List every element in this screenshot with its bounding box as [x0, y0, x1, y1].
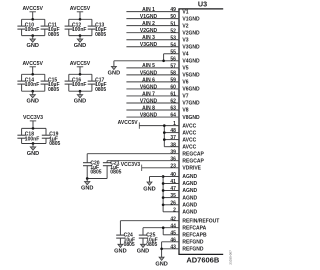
svg-text:REGCAP: REGCAP [182, 158, 204, 164]
svg-text:23: 23 [170, 163, 176, 169]
ground GND (C25) [137, 244, 149, 254]
svg-text:AIN 5: AIN 5 [142, 63, 155, 69]
svg-text:26: 26 [170, 200, 176, 206]
svg-text:AGND: AGND [182, 188, 197, 194]
svg-text:42: 42 [170, 216, 176, 222]
junction dots AVCC bus [163, 124, 166, 141]
pin 26 AGND [170, 200, 197, 208]
svg-text:AVCC: AVCC [182, 123, 196, 129]
capacitor C19 1µF 0805 [42, 132, 61, 147]
capacitor C18 100nF [17, 132, 39, 143]
svg-text:V3GND: V3GND [140, 42, 158, 48]
svg-text:0805: 0805 [48, 87, 59, 93]
figure number 21035-007 (rotated) [228, 250, 232, 265]
svg-text:37: 37 [170, 135, 176, 141]
svg-text:0805: 0805 [110, 170, 121, 176]
wire rails pair C18/C19 [22, 128, 46, 143]
capacitor C15 10µF 0805 [41, 78, 60, 93]
power flag VCC3V3 at pin 23 VDRIVE [121, 162, 179, 171]
svg-text:V8: V8 [182, 108, 188, 114]
junction dots pair C10/C11 [31, 18, 34, 37]
capacitor C11 10µF 0805 [41, 23, 60, 38]
svg-text:54: 54 [170, 42, 176, 48]
ground GND (pair C10/C11) [26, 36, 38, 49]
power flag AVCC5V (pair C12/C13) [70, 6, 91, 19]
svg-text:60: 60 [170, 85, 176, 91]
junction dots AGND bus [162, 175, 165, 206]
wire pin 44 REFCAPA / pin 45 REFCAPB tie to C25 [143, 228, 179, 235]
wire net AIN 2 to pin 51 (V2) [126, 21, 188, 29]
svg-text:AVCC5V: AVCC5V [70, 61, 91, 67]
svg-text:100nF: 100nF [25, 82, 39, 88]
svg-text:REFGND: REFGND [182, 247, 204, 253]
junction dot REFGND bus [160, 247, 163, 250]
svg-text:AIN 8: AIN 8 [142, 105, 155, 111]
svg-text:VCC3V3: VCC3V3 [121, 162, 141, 168]
pin 35 AGND [170, 193, 197, 201]
svg-text:V6GND: V6GND [182, 87, 200, 93]
svg-text:V6GND: V6GND [140, 84, 158, 90]
svg-text:38: 38 [170, 142, 176, 148]
svg-text:AGND: AGND [182, 181, 197, 187]
pin 46 REFGND [170, 237, 204, 245]
svg-text:62: 62 [170, 99, 176, 105]
capacitor C14 100nF [17, 78, 39, 89]
ground GND (C24) [114, 244, 126, 254]
wire net V6GND to pin 60 (V6GND) [126, 84, 200, 92]
svg-text:52: 52 [170, 28, 176, 34]
svg-text:44: 44 [170, 223, 176, 229]
svg-text:45: 45 [170, 230, 176, 236]
svg-text:41: 41 [170, 179, 176, 185]
pin 41 AGND [170, 179, 197, 187]
wire rails pair C16/C17 [69, 74, 92, 91]
svg-text:GND: GND [143, 186, 155, 192]
wire net V3GND to pin 54 (V3GND) [126, 42, 200, 50]
svg-text:V4GND: V4GND [182, 59, 200, 65]
svg-text:V1GND: V1GND [182, 16, 200, 22]
svg-text:39: 39 [170, 149, 176, 155]
svg-text:AGND: AGND [182, 203, 197, 209]
svg-text:0805: 0805 [48, 32, 59, 38]
wire pin 42 REFIN/REFOUT to C24 [120, 221, 179, 235]
part number label AD7606B [186, 255, 220, 264]
wire net AIN 5 to pin 57 (V5) [126, 63, 188, 71]
wire net V5GND to pin 58 (V5GND) [126, 70, 200, 78]
pin 48 AVCC [170, 128, 196, 136]
op-amp/ADC IC U3 AD7606B body [178, 9, 223, 255]
ground GND (REFGND) [155, 257, 167, 267]
power flag AVCC5V (pair C16/C17) [70, 61, 91, 74]
svg-text:GND: GND [81, 186, 93, 192]
wire net V2GND to pin 52 (V2GND) [126, 28, 200, 36]
svg-text:V7: V7 [182, 94, 188, 100]
pin 38 AVCC [170, 142, 196, 150]
svg-text:GND: GND [27, 151, 39, 157]
power flag AVCC5V (pair C10/C11) [22, 6, 43, 19]
svg-text:63: 63 [170, 106, 176, 112]
svg-text:59: 59 [170, 78, 176, 84]
svg-text:AIN 6: AIN 6 [142, 77, 155, 83]
svg-text:AIN 7: AIN 7 [142, 91, 155, 97]
svg-text:V6: V6 [182, 80, 188, 86]
wire C20/C21 bottoms tie [87, 178, 107, 180]
svg-text:51: 51 [170, 21, 176, 27]
ground GND (pair C18/C19) [27, 144, 39, 157]
svg-text:AGND: AGND [182, 210, 197, 216]
pin 36 REGCAP [170, 156, 204, 164]
capacitor C10 100nF [17, 23, 39, 34]
svg-text:GND: GND [74, 99, 86, 105]
svg-text:AVCC5V: AVCC5V [118, 120, 139, 126]
capacitor C20 1uF 0805 [83, 160, 102, 178]
pin 37 AVCC [170, 135, 196, 143]
svg-text:GND: GND [26, 43, 38, 49]
junction dots pair C18/C19 [32, 127, 35, 145]
junction dot C20 bottom [86, 177, 89, 180]
svg-text:V7GND: V7GND [140, 98, 158, 104]
svg-text:35: 35 [170, 193, 176, 199]
svg-text:AIN 3: AIN 3 [142, 35, 155, 41]
svg-text:100nF: 100nF [72, 27, 86, 33]
svg-text:U3: U3 [198, 0, 207, 8]
pin 1 AVCC [173, 121, 196, 129]
svg-text:V3: V3 [182, 37, 188, 43]
svg-text:48: 48 [170, 128, 176, 134]
svg-text:GND: GND [114, 248, 126, 254]
capacitor C25 10uF 0805 [139, 233, 158, 248]
svg-text:V8GND: V8GND [182, 115, 200, 121]
svg-text:1: 1 [173, 121, 176, 127]
svg-text:AVCC5V: AVCC5V [70, 6, 91, 12]
wire pin 55 V4 stub to V4/V4GND tie [164, 49, 189, 60]
svg-text:V7GND: V7GND [182, 101, 200, 107]
pin 23 VDRIVE [170, 163, 201, 171]
ground GND (V4/V4GND tie) [108, 61, 120, 77]
svg-text:0805: 0805 [95, 87, 106, 93]
svg-text:V4: V4 [182, 51, 188, 57]
wire AVCC bus to pins 48/37/38 [164, 126, 179, 147]
svg-text:AGND: AGND [182, 195, 197, 201]
svg-text:64: 64 [170, 113, 176, 119]
svg-text:58: 58 [170, 70, 176, 76]
ground GND (AGND pins) [143, 177, 155, 193]
svg-text:V1GND: V1GND [140, 14, 158, 20]
ground GND (pair C12/C13) [74, 36, 86, 49]
svg-text:57: 57 [170, 63, 176, 69]
svg-text:REFGND: REFGND [182, 240, 204, 246]
pin 42 REFIN/REFOUT [170, 216, 219, 224]
capacitor C21 1uF 0805 [103, 160, 122, 178]
svg-text:100nF: 100nF [72, 82, 86, 88]
svg-text:V5GND: V5GND [140, 70, 158, 76]
svg-text:AD7606B: AD7606B [186, 255, 220, 264]
svg-text:49: 49 [170, 7, 176, 13]
wire net AIN 1 to pin 49 (V1) [126, 7, 188, 15]
svg-text:50: 50 [170, 14, 176, 20]
wire REFGND bus pins 46/43 [162, 242, 179, 257]
svg-text:AVCC: AVCC [182, 137, 196, 143]
svg-text:0805: 0805 [90, 170, 101, 176]
capacitor C17 10µF 0805 [88, 78, 107, 93]
svg-text:AGND: AGND [182, 174, 197, 180]
svg-text:55: 55 [170, 49, 176, 55]
svg-text:V8GND: V8GND [140, 112, 158, 118]
power flag AVCC5V at pin 1 [118, 120, 179, 129]
svg-text:0805: 0805 [49, 141, 60, 147]
svg-text:21035-007: 21035-007 [228, 250, 232, 265]
svg-text:47: 47 [170, 186, 176, 192]
junction dots pair C16/C17 [79, 73, 82, 93]
wire pin 36 REGCAP to C21 [107, 161, 179, 163]
svg-text:REGCAP: REGCAP [182, 151, 204, 157]
svg-text:GND: GND [108, 70, 120, 76]
wire net AIN 3 to pin 53 (V3) [126, 35, 188, 43]
pin 39 REGCAP [170, 149, 204, 157]
junction dot REFCAP tie [162, 226, 165, 229]
svg-text:0805: 0805 [124, 242, 135, 248]
wire net AIN 8 to pin 63 (V8) [126, 105, 188, 113]
wire pin 39 REGCAP to C20 [87, 154, 179, 163]
svg-text:AVCC: AVCC [182, 130, 196, 136]
wire pin 56 V4GND stub and run to GND [114, 56, 200, 64]
power flag AVCC5V (pair C14/C15) [22, 61, 43, 74]
capacitor C16 100nF [65, 78, 87, 89]
pin 2 AGND [173, 207, 197, 215]
svg-text:V3GND: V3GND [182, 44, 200, 50]
svg-text:GND: GND [74, 43, 86, 49]
pin 45 REFCAPB [170, 230, 207, 238]
svg-text:AVCC5V: AVCC5V [22, 61, 43, 67]
wire AGND bus pins 40/41/47/35/26/2 [163, 177, 179, 212]
capacitor C12 100nF [65, 23, 87, 34]
wire net AIN 7 to pin 61 (V7) [126, 91, 188, 99]
svg-text:0805: 0805 [146, 242, 157, 248]
svg-text:53: 53 [170, 35, 176, 41]
pin 40 AGND [170, 172, 197, 180]
svg-text:36: 36 [170, 156, 176, 162]
capacitor C13 10µF 0805 [88, 23, 107, 38]
svg-text:100nF: 100nF [25, 136, 39, 142]
svg-text:V5: V5 [182, 66, 188, 72]
svg-text:40: 40 [170, 172, 176, 178]
svg-text:2: 2 [173, 207, 176, 213]
svg-text:V2GND: V2GND [182, 30, 200, 36]
svg-text:V2: V2 [182, 23, 188, 29]
svg-text:AIN 1: AIN 1 [142, 7, 155, 13]
wire net V1GND to pin 50 (V1GND) [126, 14, 200, 22]
reference designator U3 [198, 0, 207, 8]
svg-text:V5GND: V5GND [182, 73, 200, 79]
svg-text:AVCC: AVCC [182, 144, 196, 150]
wire net V7GND to pin 62 (V7GND) [126, 98, 200, 106]
svg-text:0805: 0805 [95, 32, 106, 38]
svg-text:GND: GND [155, 261, 167, 267]
wire net V8GND to pin 64 (V8GND) [126, 112, 200, 120]
svg-text:REFIN/REFOUT: REFIN/REFOUT [182, 218, 219, 224]
svg-text:VDRIVE: VDRIVE [182, 166, 201, 172]
svg-text:REFCAPA: REFCAPA [182, 225, 206, 231]
wire rails pair C12/C13 [69, 19, 92, 35]
junction dots pair C12/C13 [79, 18, 82, 37]
svg-text:GND: GND [137, 248, 149, 254]
svg-text:AIN 2: AIN 2 [142, 21, 155, 27]
svg-text:GND: GND [26, 99, 38, 105]
svg-text:REFCAPB: REFCAPB [182, 233, 207, 239]
pin 44 REFCAPA [170, 223, 206, 231]
power flag VCC3V3 (pair C18/C19) [23, 115, 43, 128]
junction dots pair C14/C15 [31, 73, 34, 93]
svg-text:61: 61 [170, 92, 176, 98]
pin 47 AGND [170, 186, 197, 194]
pin 43 REFGND [170, 244, 204, 252]
wire rails pair C10/C11 [22, 19, 45, 35]
ground GND (C20/C21) [81, 179, 93, 192]
wire net AIN 6 to pin 59 (V6) [126, 77, 188, 85]
svg-text:AVCC5V: AVCC5V [22, 6, 43, 12]
wire rails pair C14/C15 [22, 74, 45, 91]
svg-text:V1: V1 [182, 9, 188, 15]
svg-text:56: 56 [170, 56, 176, 62]
capacitor C24 10uF 0805 [116, 233, 135, 248]
svg-text:43: 43 [170, 244, 176, 250]
ground GND (pair C14/C15) [26, 91, 38, 104]
svg-text:46: 46 [170, 237, 176, 243]
svg-text:V2GND: V2GND [140, 28, 158, 34]
svg-text:VCC3V3: VCC3V3 [23, 115, 43, 121]
wire AGND bus to GND [150, 176, 164, 178]
ground GND (pair C16/C17) [74, 91, 86, 104]
svg-text:100nF: 100nF [25, 27, 39, 33]
